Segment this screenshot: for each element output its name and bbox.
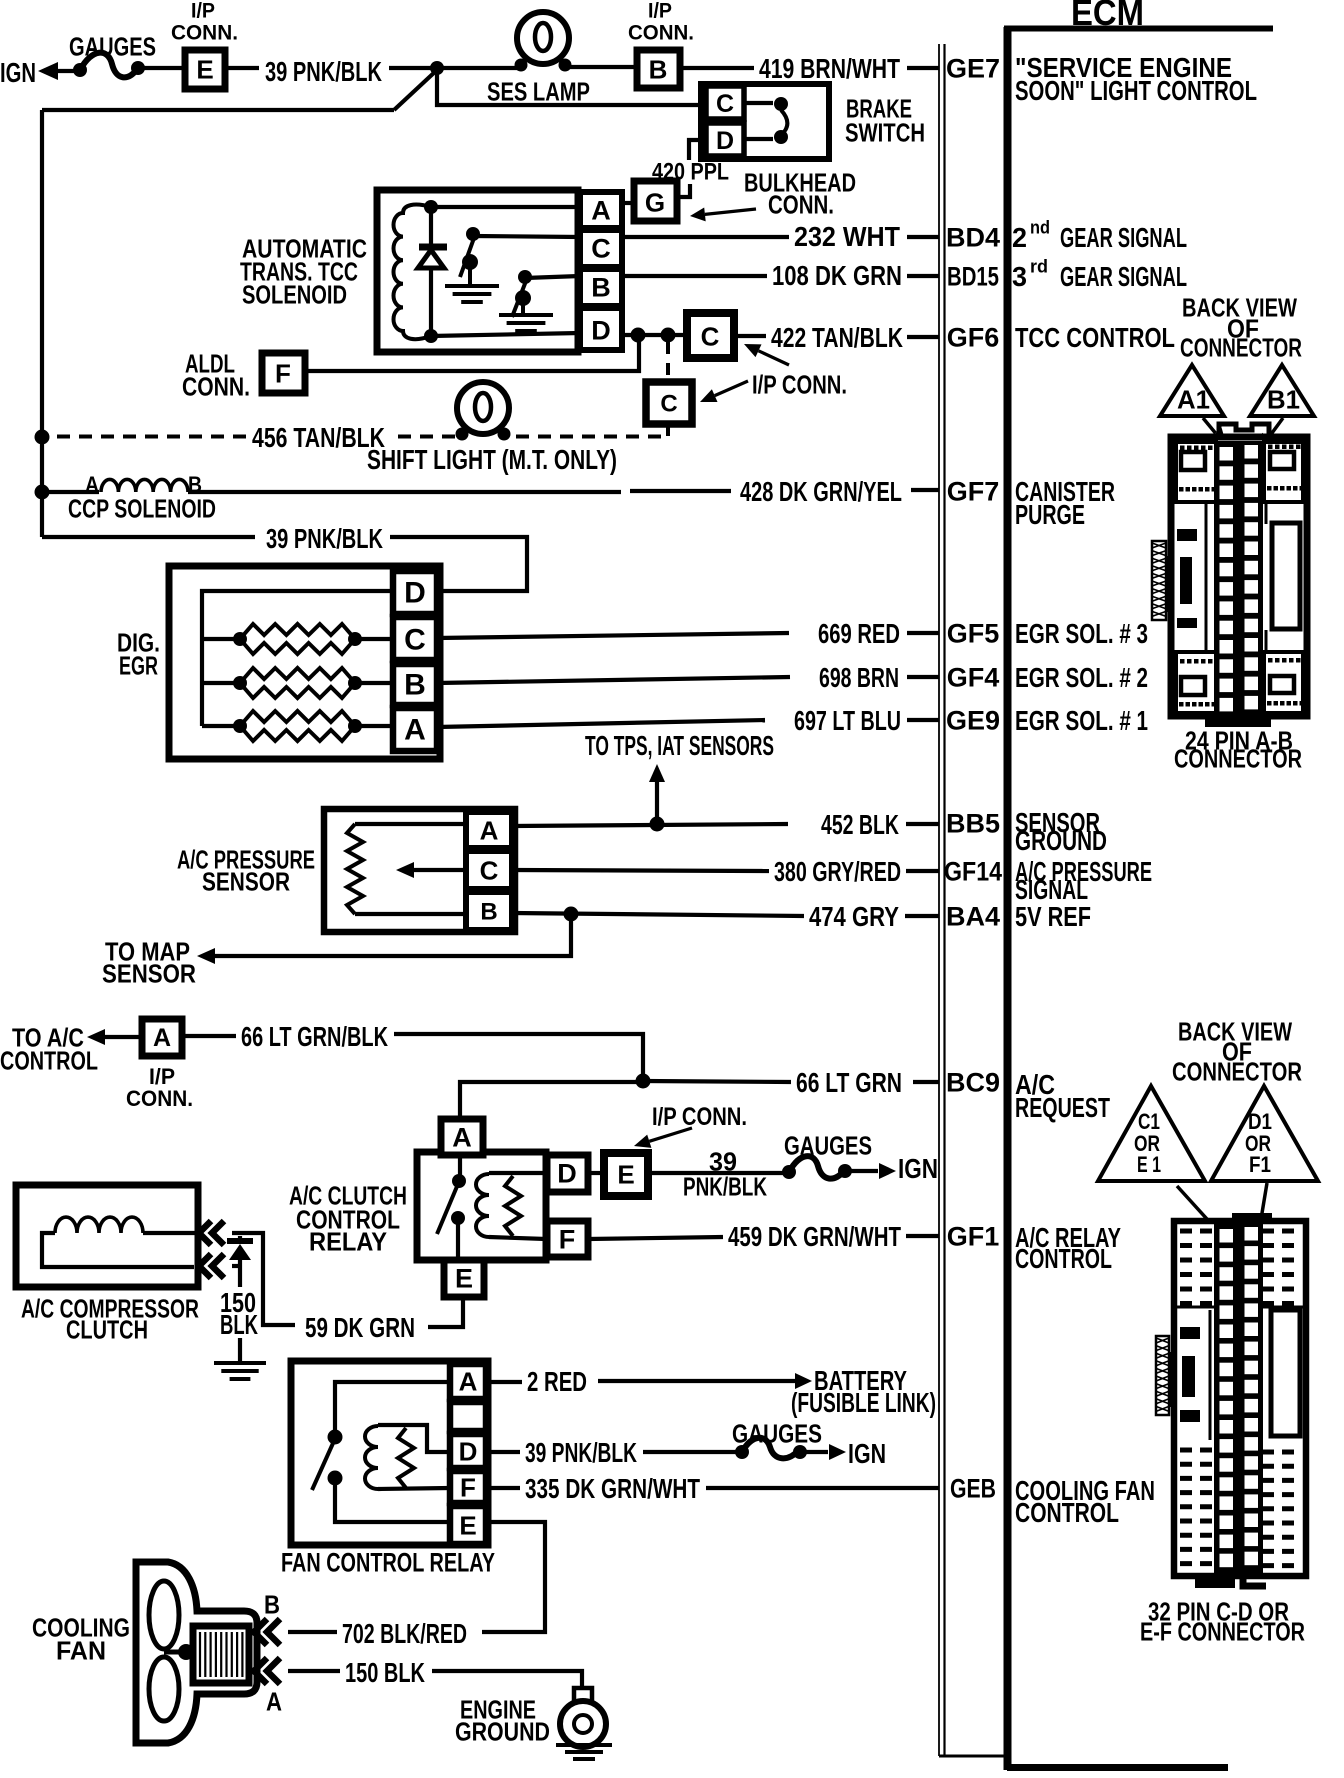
24-pin cavity row 7 (1220, 563, 1234, 577)
wire gauges to E connector (143, 66, 184, 70)
svg-text:A: A (459, 1366, 478, 1396)
svg-text:B: B (649, 54, 668, 84)
TCC pin A (580, 192, 622, 228)
EGR resistor pair row B upper (240, 668, 355, 683)
32-pin cavity row 2 (1220, 1248, 1234, 1262)
junction dot pin D (631, 328, 646, 343)
wire to MAP sensor (214, 914, 571, 956)
EGR row C wire right (355, 637, 395, 641)
32-pin center pin field (1214, 1223, 1263, 1573)
svg-text:F: F (460, 1472, 476, 1502)
wire 422 TAN/BLK (734, 334, 766, 338)
svg-text:SWITCH: SWITCH (845, 117, 925, 147)
pressure pin C (466, 851, 512, 889)
fan motor hatch (199, 1632, 201, 1677)
svg-text:SES LAMP: SES LAMP (487, 76, 590, 106)
32-pin cavity row 4 (1220, 1286, 1234, 1300)
TCC switch2 ground lead (521, 298, 525, 314)
svg-text:IGN: IGN (848, 1438, 886, 1469)
gauges fuse squiggle (fan) (742, 1438, 799, 1459)
svg-text:BA4: BA4 (946, 902, 1000, 932)
fan blade lower (149, 1657, 179, 1721)
svg-text:GE9: GE9 (946, 706, 1000, 736)
wire arrow to A conn (104, 1035, 141, 1039)
32-pin bottom tab 2 (1243, 1572, 1266, 1586)
TCC top node dot (424, 200, 438, 214)
svg-text:GEB: GEB (950, 1474, 996, 1504)
wire 66 LT GRN to label (643, 1081, 791, 1082)
connector G (bulkhead) (634, 181, 677, 221)
connector E (I/P conn clutch) (604, 1153, 648, 1196)
24-pin left lock mark 3 (1177, 618, 1197, 628)
wire 474 GRY to ECM BA4 (905, 914, 939, 918)
24-pin cavity row 2 (1220, 466, 1234, 480)
TCC pin C (580, 230, 622, 267)
svg-text:FAN CONTROL RELAY: FAN CONTROL RELAY (281, 1548, 495, 1578)
engine ground bolt (574, 1688, 592, 1710)
pressure sensor wiper arrow (412, 868, 467, 872)
TCC switch2 pivot dot (515, 290, 531, 306)
wire 380 GRY/RED to ECM GF14 (906, 869, 939, 873)
shift light leg dots (456, 428, 469, 441)
shift light lamp (457, 382, 509, 434)
TCC solenoid coil (394, 205, 432, 340)
svg-text:CONNECTOR: CONNECTOR (1172, 1056, 1302, 1086)
pressure sensor resistor (347, 824, 363, 914)
wire 59 DK GRN left stub (266, 1323, 295, 1327)
wire chevron1 to 59 DK GRN riser (232, 1233, 266, 1325)
EGR row C wire left (202, 637, 240, 641)
fan control relay body (291, 1361, 488, 1545)
svg-text:698 BRN: 698 BRN (819, 662, 899, 693)
EGR row B wire right (355, 681, 395, 685)
32-pin cavity row 10 (1220, 1401, 1234, 1415)
wire 39 PNK/BLK (EGR feed) (42, 535, 255, 539)
svg-text:CONTROL: CONTROL (0, 1045, 98, 1075)
32-pin left lock mark 2 (1182, 1356, 1195, 1397)
svg-text:SOLENOID: SOLENOID (242, 279, 347, 309)
svg-text:GF1: GF1 (947, 1222, 1000, 1252)
dashed wire C2 down (666, 424, 670, 437)
svg-text:rd: rd (1030, 256, 1048, 276)
relay wire A to switch (458, 1155, 462, 1180)
wire left vertical bus (40, 110, 44, 537)
EGR row A node dots (233, 719, 247, 733)
24-pin BR dotted rows (1268, 658, 1273, 663)
svg-text:66 LT GRN/BLK: 66 LT GRN/BLK (241, 1021, 388, 1052)
svg-text:CONTROL: CONTROL (1015, 1497, 1119, 1528)
connector E (I/P conn, 39 PNK/BLK) (185, 50, 225, 89)
svg-text:669 RED: 669 RED (818, 618, 900, 649)
svg-text:150 BLK: 150 BLK (345, 1657, 425, 1688)
pressure sensor bottom lead (355, 912, 467, 916)
wire 428 DK GRN/YEL to ECM GF7 (911, 488, 939, 492)
junction dot gauges2 right (838, 1164, 852, 1178)
svg-text:D: D (591, 316, 611, 346)
dashed wire 456 TAN/BLK left (46, 435, 246, 439)
svg-text:SENSOR: SENSOR (202, 866, 290, 896)
32-pin cavity row 9 (1220, 1382, 1234, 1396)
automatic trans TCC solenoid body (377, 190, 578, 352)
relay pin D (547, 1155, 588, 1192)
arrow to I/P E conn (649, 1128, 692, 1141)
EGR inner bus (202, 591, 393, 726)
wire splice down to brake switch (437, 70, 703, 105)
32-pin cavity row 7 (1220, 1344, 1234, 1358)
wire to gauges dot (56, 69, 76, 73)
wire coil bottom to pin D (431, 333, 580, 336)
svg-text:F: F (559, 1225, 576, 1255)
relay switch pivot dot (451, 1211, 465, 1225)
svg-text:D: D (459, 1436, 478, 1466)
svg-text:GAUGES: GAUGES (69, 31, 156, 61)
svg-text:EGR SOL. # 2: EGR SOL. # 2 (1015, 662, 1148, 693)
chevron connector A (fan) (254, 1658, 267, 1684)
wire 474 GRY from pin B (512, 913, 804, 916)
junction dot gauges3 right (793, 1445, 807, 1459)
24-pin cavity row 13 (1220, 679, 1234, 693)
junction dot 66 LT GRN (636, 1074, 651, 1089)
svg-text:CONN.: CONN. (768, 189, 834, 219)
32-pin cavity row 5 (1220, 1305, 1234, 1319)
32-pin lower-left hatch dashes (1180, 1448, 1215, 1453)
EGR resistor pair row A upper (240, 711, 355, 726)
SES lamp legs (522, 57, 527, 64)
arrowhead to MAP sensor (197, 948, 215, 964)
32-pin right tall cavity (1271, 1310, 1300, 1436)
junction dot TPS tap (650, 817, 665, 832)
24-pin left lock mark 2 (1180, 557, 1192, 604)
ECM top line (1004, 26, 1273, 32)
dashed wire 456 TAN/BLK mid (390, 435, 455, 439)
EGR row A wire left (202, 724, 240, 728)
svg-text:C: C (660, 391, 677, 418)
svg-text:A: A (404, 714, 426, 747)
TCC switch1 ground lead (468, 262, 472, 285)
svg-text:SHIFT LIGHT (M.T. ONLY): SHIFT LIGHT (M.T. ONLY) (367, 444, 617, 475)
32-pin cavity row 8 (1220, 1363, 1234, 1377)
arrow to C2 connector (715, 381, 748, 396)
relay pin A (441, 1119, 483, 1155)
svg-text:D: D (404, 577, 426, 610)
32-pin upper section divider (1177, 1306, 1215, 1309)
32-pin left lock mark 1 (1180, 1327, 1200, 1339)
wire E to label (225, 66, 259, 70)
connector C2 (I/P conn shift) (646, 382, 692, 424)
EGR resistor pair row A lower (240, 726, 355, 741)
32-pin bottom tab 1 (1195, 1576, 1235, 1588)
wire 428 DK GRN/YEL mid (630, 489, 731, 493)
24-pin cavity row 3 (1220, 486, 1234, 500)
wire label to junction (389, 66, 433, 70)
arrow C1 to connector (1177, 1186, 1214, 1227)
svg-text:REQUEST: REQUEST (1015, 1092, 1110, 1123)
wire junction to SES lamp (437, 66, 521, 70)
compressor coil right lead (143, 1231, 197, 1235)
wire branch to relay pin A (460, 1082, 643, 1119)
TCC switch2 contact dot (518, 270, 532, 284)
svg-text:419 BRN/WHT: 419 BRN/WHT (759, 53, 900, 84)
wire 150 BLK (fan) left (288, 1669, 340, 1673)
fan blade upper (149, 1581, 179, 1649)
ECM body left thick line (1004, 27, 1012, 1770)
svg-text:GROUND: GROUND (1015, 825, 1107, 856)
EGR resistor pair row C lower (240, 639, 355, 654)
TCC switch2 wire to pin B (525, 276, 580, 278)
wire below 150 BLK label (238, 1338, 242, 1362)
svg-text:CONN.: CONN. (628, 22, 694, 45)
svg-text:452 BLK: 452 BLK (821, 809, 899, 840)
TCC diode (418, 250, 444, 268)
svg-text:B: B (404, 669, 426, 702)
wire ALDL F to pin D junction (305, 335, 639, 371)
fan relay pin A (450, 1364, 486, 1399)
arrow A1 to connector (1203, 418, 1216, 433)
wire 380 GRY/RED from pin C (512, 870, 769, 871)
chevron connector B row (compressor) (199, 1221, 211, 1245)
relay coil bumps (476, 1174, 489, 1237)
svg-text:BD15: BD15 (947, 262, 999, 292)
svg-text:CONNECTOR: CONNECTOR (1174, 743, 1302, 773)
svg-text:EGR SOL. # 1: EGR SOL. # 1 (1015, 705, 1148, 736)
svg-text:CONN.: CONN. (171, 22, 238, 45)
svg-text:BD4: BD4 (946, 223, 1000, 253)
svg-text:GF7: GF7 (947, 477, 1000, 507)
wire pin A to G (622, 201, 634, 205)
pressure pin A (466, 812, 512, 848)
24-pin cavity row 8 (1220, 582, 1234, 596)
24-pin hatch bridge (1166, 556, 1173, 612)
svg-text:FAN: FAN (56, 1635, 106, 1665)
junction dot 456 tap (661, 328, 676, 343)
diode to ground wire (238, 1260, 242, 1287)
brake switch lever (781, 110, 787, 132)
junction dot 456 left bus (35, 430, 50, 445)
triangle B1 (1250, 365, 1314, 416)
wire 335 DK GRN/WHT left (486, 1486, 520, 1490)
wire pin D to junction (622, 333, 687, 337)
svg-text:GF6: GF6 (947, 323, 1000, 353)
svg-text:428 DK GRN/YEL: 428 DK GRN/YEL (740, 476, 902, 507)
wire 108 DK GRN from pin B (622, 274, 767, 278)
fan relay switch lever (312, 1441, 334, 1490)
CCP solenoid coil (101, 479, 188, 492)
24-pin block top-left (1176, 442, 1216, 502)
wire 669 RED from EGR pin C (437, 633, 789, 638)
EGR pin C (393, 617, 437, 660)
svg-text:BB5: BB5 (946, 809, 1000, 839)
TCC switch1 pivot dot (462, 254, 478, 270)
32-pin top tab (1232, 1213, 1272, 1222)
ECM connector strip left double line (938, 44, 940, 1756)
svg-text:A: A (266, 1686, 282, 1716)
TCC diode vertical wire (429, 207, 433, 247)
32-pin cavity row 3 (1220, 1267, 1234, 1281)
wire relay E down to 59 DK GRN (428, 1297, 463, 1327)
TCC pin B (580, 269, 622, 306)
32-pin cavity row 12 (1220, 1439, 1234, 1453)
svg-text:(FUSIBLE LINK): (FUSIBLE LINK) (791, 1387, 936, 1418)
ground (150 BLK) (214, 1361, 266, 1365)
svg-text:39 PNK/BLK: 39 PNK/BLK (525, 1437, 637, 1468)
junction node dot (39 PNK/BLK splice) (430, 61, 444, 75)
svg-text:EGR: EGR (119, 650, 158, 680)
DIG EGR body (169, 566, 440, 759)
svg-text:IGN: IGN (0, 57, 36, 88)
wire 39 PNK/BLK (fan) left (486, 1450, 520, 1454)
32-pin cavity row 17 (1220, 1535, 1234, 1549)
wire 2 RED to battery (598, 1379, 795, 1383)
32-pin cavity row 15 (1220, 1496, 1234, 1510)
connector F (ALDL) (262, 353, 305, 393)
svg-text:66 LT GRN: 66 LT GRN (796, 1067, 902, 1098)
TCC switch2 lever (512, 281, 526, 317)
wire 697 LT BLU from EGR pin A (437, 720, 765, 727)
fan relay switch pivot dot (328, 1471, 343, 1486)
24-pin connector top tab (1219, 424, 1269, 437)
TCC pin D (580, 308, 622, 350)
32-pin cavity row 6 (1220, 1325, 1234, 1339)
24-pin TR key rect (1270, 452, 1294, 469)
relay switch fixed dot (452, 1174, 466, 1188)
svg-text:456 TAN/BLK: 456 TAN/BLK (252, 422, 385, 453)
svg-text:459 DK GRN/WHT: 459 DK GRN/WHT (728, 1221, 901, 1252)
24-pin cavity row 5 (1220, 524, 1234, 538)
pressure pin B (466, 892, 512, 930)
junction dot gauges right (131, 61, 145, 75)
svg-text:D: D (716, 127, 734, 155)
EGR resistor pair row B lower (240, 683, 355, 698)
svg-text:B1: B1 (1267, 384, 1300, 414)
svg-text:C: C (480, 855, 499, 885)
arrow to C1 connector (759, 351, 790, 365)
svg-text:I/P CONN.: I/P CONN. (752, 369, 847, 399)
brake switch pin D (706, 123, 744, 156)
junction dot gauges3 left (735, 1445, 749, 1459)
wire 452 BLK from pin A (512, 824, 788, 826)
fan relay coil bottom rail (378, 1488, 450, 1489)
shift light legs (463, 427, 467, 433)
svg-text:E: E (196, 54, 213, 84)
24-pin left divider (1205, 502, 1208, 652)
24-pin right tall cavity (1272, 523, 1300, 629)
svg-text:A1: A1 (1177, 384, 1210, 414)
junction dot gauges left (73, 63, 87, 77)
junction dot CCP left bus (35, 485, 50, 500)
dashed wire junction to C2 (666, 342, 670, 381)
32-pin lower-right hatch dashes (1262, 1450, 1300, 1455)
24-pin block bottom-left (1176, 652, 1216, 713)
svg-text:474 GRY: 474 GRY (809, 901, 899, 932)
EGR row A wire right (355, 724, 395, 728)
32-pin cavity row 16 (1220, 1516, 1234, 1530)
24-pin connector body (1171, 437, 1307, 716)
svg-text:380 GRY/RED: 380 GRY/RED (774, 856, 901, 887)
wire 420 PPL from D to G (689, 140, 706, 160)
EGR resistor pair row C upper (240, 624, 355, 639)
compressor clutch coil (55, 1217, 143, 1233)
wire 452 BLK to ECM BB5 (906, 822, 939, 826)
TCC diode cathode bar (419, 244, 447, 251)
24-pin block bottom-right (1264, 652, 1303, 713)
wire 66 LT GRN/BLK to branch (394, 1034, 643, 1081)
TCC bottom node dot (424, 329, 438, 343)
svg-text:CLUTCH: CLUTCH (66, 1314, 148, 1344)
svg-text:697 LT BLU: 697 LT BLU (794, 705, 901, 736)
svg-text:A: A (591, 196, 611, 226)
fan relay pin E (450, 1506, 486, 1544)
24-pin center pin field (1214, 441, 1263, 717)
svg-text:GEAR SIGNAL: GEAR SIGNAL (1060, 261, 1187, 292)
svg-text:GEAR SIGNAL: GEAR SIGNAL (1060, 222, 1187, 253)
triangle D1/F1 (1211, 1086, 1318, 1181)
fan relay switch fixed dot (328, 1430, 343, 1445)
svg-text:E 1: E 1 (1137, 1152, 1161, 1177)
32-pin hatch strip (1156, 1336, 1169, 1415)
svg-text:IGN: IGN (898, 1153, 938, 1184)
24-pin BL key rect (1181, 677, 1205, 695)
svg-text:2: 2 (1012, 222, 1027, 253)
24-pin left lock mark 1 (1177, 529, 1197, 541)
32-pin cavity row 11 (1220, 1420, 1234, 1434)
svg-text:B: B (591, 273, 611, 303)
svg-text:335 DK GRN/WHT: 335 DK GRN/WHT (525, 1473, 700, 1504)
wire SES lamp to B connector (565, 65, 637, 69)
TCC switch1 wire to pin C (473, 236, 580, 237)
svg-text:I/P: I/P (648, 0, 672, 23)
svg-text:232 WHT: 232 WHT (794, 221, 900, 252)
svg-text:39 PNK/BLK: 39 PNK/BLK (265, 56, 382, 87)
svg-text:PURGE: PURGE (1015, 499, 1085, 530)
32-pin cavity row 13 (1220, 1458, 1234, 1472)
relay coil zigzag (505, 1176, 521, 1236)
24-pin right recess lines (1265, 502, 1268, 524)
wire 698 BRN from EGR pin B (437, 677, 790, 683)
relay switch lever (437, 1184, 458, 1234)
ground (engine) (556, 1743, 612, 1747)
svg-text:E-F CONNECTOR: E-F CONNECTOR (1140, 1616, 1305, 1646)
24-pin cavity row 12 (1220, 659, 1234, 673)
connector B (I/P conn) (637, 50, 680, 88)
chevron connector B (fan) (254, 1619, 267, 1645)
wire 702 BLK/RED left (288, 1630, 337, 1634)
svg-text:CCP SOLENOID: CCP SOLENOID (68, 493, 216, 523)
svg-text:F1: F1 (1249, 1152, 1271, 1177)
24-pin cavity row 1 (1220, 447, 1234, 461)
A/C compressor clutch body (16, 1185, 198, 1287)
svg-text:BLK: BLK (220, 1309, 258, 1340)
svg-text:422 TAN/BLK: 422 TAN/BLK (771, 322, 903, 353)
chevron connector A row (compressor) (199, 1254, 211, 1278)
svg-text:E: E (455, 1264, 473, 1294)
svg-text:GE7: GE7 (946, 54, 1000, 84)
relay coil bottom rail to pin F (489, 1237, 546, 1239)
wire coil top to pin A (431, 205, 580, 209)
cooling fan housing (136, 1562, 257, 1743)
junction dot MAP tap (564, 907, 579, 922)
svg-text:702 BLK/RED: 702 BLK/RED (342, 1618, 467, 1649)
32-pin connector body (1174, 1221, 1306, 1576)
wire 698 BRN to ECM GF4 (907, 675, 939, 679)
svg-text:3: 3 (1012, 261, 1027, 292)
wire 108 DK GRN to ECM BD15 (907, 274, 939, 278)
svg-text:PNK/BLK: PNK/BLK (683, 1171, 767, 1201)
32-pin cavity row 18 (1220, 1554, 1234, 1568)
24-pin cavity row 10 (1220, 621, 1234, 635)
24-pin block top-right (1264, 442, 1303, 502)
arrow D1 to connector (1260, 1183, 1267, 1225)
svg-text:GROUND: GROUND (455, 1716, 550, 1746)
